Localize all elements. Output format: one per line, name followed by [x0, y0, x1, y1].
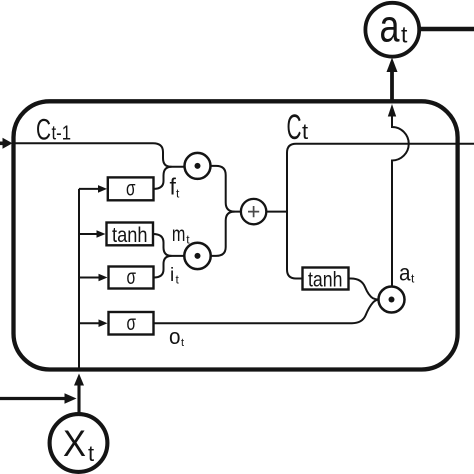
wire: X branch arrow into sigma 1: [79, 185, 107, 193]
svg-text:a: a: [380, 1, 401, 52]
svg-text:tanh: tanh: [308, 268, 343, 292]
wire: thick arrow from border up to a_t circle: [387, 58, 398, 104]
wire: a_t line up with hop over C_t line: [392, 117, 409, 287]
LSTM cell body (rounded box): [14, 101, 458, 369]
svg-text:t: t: [181, 337, 184, 349]
multiply gate (output) circle-dot: [379, 287, 405, 313]
svg-text:t-1: t-1: [52, 123, 72, 145]
svg-text:m: m: [172, 223, 186, 246]
wire: X_t vertical feed line inside cell: [78, 189, 80, 370]
wire: a_t output line to right edge: [419, 27, 474, 31]
wire: X branch arrow into sigma 2: [79, 274, 108, 282]
wire: small arrowhead under top border: [388, 104, 396, 117]
wire: plus output to C_t vertical junction: [266, 211, 287, 213]
node a_t output circle: [365, 3, 419, 57]
svg-text:σ: σ: [127, 311, 137, 335]
svg-text:a: a: [399, 260, 411, 286]
wire: C_t horizontal line exiting right: [296, 143, 474, 145]
svg-text:C: C: [287, 108, 302, 147]
wire: o_t line to output multiply: [154, 300, 379, 323]
svg-text:X: X: [63, 423, 86, 464]
tanh box 1 (candidate): [107, 223, 154, 246]
wire: X_t arrow from circle into cell: [74, 374, 84, 415]
wire: X branch arrow into sigma 3: [79, 319, 108, 327]
wire: cell-state line from left border, corner down to forget gate: [14, 143, 185, 167]
svg-text:σ: σ: [127, 265, 137, 289]
wire: X branch arrow into tanh 1: [79, 230, 106, 238]
svg-text:t: t: [401, 22, 408, 48]
svg-text:t: t: [88, 441, 94, 466]
tanh box 2 (cell output tanh): [303, 268, 349, 290]
wire: forget gate output down to plus: [211, 166, 241, 212]
wire: X input arrow from left: [0, 393, 77, 404]
wire: C_t vertical riser (up to C_t line, down to tanh2): [287, 144, 303, 279]
wire: input gate output up to plus: [211, 212, 235, 256]
wire: sigma2 output rising to input multiply junction: [154, 256, 172, 278]
svg-text:o: o: [169, 324, 181, 349]
sigma box 2 (input gate sigma): [109, 267, 154, 289]
svg-text:t: t: [302, 119, 308, 144]
wire: tanh2 output to output multiply: [349, 279, 379, 300]
wire: sigma1 output rising to forget multiply junction: [154, 167, 172, 189]
wire: C_t-1 input arrow (left, thick): [0, 138, 13, 149]
node X_t input circle: [50, 414, 108, 472]
multiply gate (input) circle-dot: [184, 243, 210, 269]
svg-text:σ: σ: [126, 176, 136, 200]
sigma box 1 (forget gate sigma): [108, 177, 154, 200]
wire: tanh1 output descending to input multiply junction: [153, 234, 184, 256]
sigma box 3 (output gate sigma): [109, 312, 154, 335]
svg-text:tanh: tanh: [112, 223, 148, 247]
multiply gate (forget) circle-dot: [185, 153, 211, 179]
svg-text:i: i: [170, 265, 174, 286]
add gate (plus circle): [241, 199, 266, 224]
svg-text:C: C: [36, 114, 51, 147]
